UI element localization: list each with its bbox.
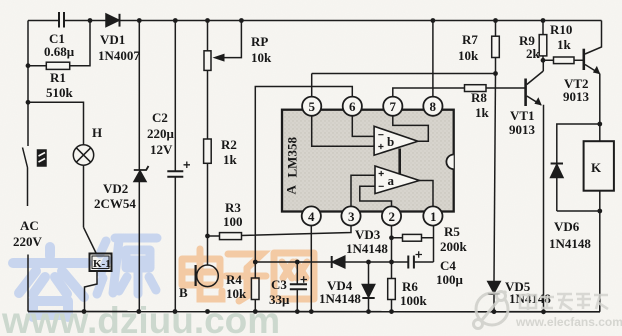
wire left rail bbox=[27, 21, 30, 312]
pin 7 bbox=[383, 97, 402, 116]
svg-text:R8: R8 bbox=[471, 90, 487, 105]
svg-text:K: K bbox=[591, 160, 602, 175]
wire R3 row to pin 3 bbox=[208, 225, 352, 236]
node R9 top bbox=[541, 18, 546, 23]
C2 plus sign bbox=[184, 162, 191, 169]
svg-text:1k: 1k bbox=[475, 105, 490, 120]
wire pin5 to b plus bbox=[312, 74, 374, 147]
svg-text:200k: 200k bbox=[440, 239, 468, 254]
watermark salmon character DIAN bbox=[182, 249, 222, 299]
svg-text:C3: C3 bbox=[271, 277, 287, 292]
wire RP branch bbox=[207, 21, 209, 266]
node pin2 R5 bbox=[389, 235, 394, 240]
wire pin7 to b out bbox=[393, 115, 429, 141]
wire pin7 row to R8 bbox=[393, 88, 526, 97]
node VT2 emitter relay top bbox=[597, 122, 602, 127]
diode VD1 bbox=[106, 14, 120, 27]
svg-text:VD6: VD6 bbox=[554, 219, 580, 234]
svg-text:C2: C2 bbox=[152, 110, 168, 125]
node C3 bottom bbox=[295, 309, 300, 314]
op-amp b bbox=[374, 126, 418, 155]
svg-text:100μ: 100μ bbox=[436, 272, 464, 287]
svg-text:33μ: 33μ bbox=[269, 292, 290, 307]
node relay bottom bbox=[597, 209, 602, 214]
resistor R5 bbox=[403, 234, 422, 241]
svg-text:www.elecfans.com: www.elecfans.com bbox=[515, 315, 622, 329]
node pin8 top bbox=[431, 18, 436, 23]
wire pin2 riser bbox=[391, 225, 393, 312]
svg-text:R3: R3 bbox=[225, 200, 241, 215]
node C2 top bbox=[173, 18, 178, 23]
wire pin6 net left bbox=[255, 87, 352, 263]
node pin4 bottom bbox=[309, 309, 314, 314]
svg-text:10k: 10k bbox=[251, 50, 272, 65]
node R1 left bbox=[26, 63, 31, 68]
wire pin4 riser ground bbox=[310, 225, 312, 312]
node K-1 bottom bbox=[82, 309, 87, 314]
microphone B bbox=[196, 265, 219, 287]
svg-text:2k: 2k bbox=[526, 46, 541, 61]
C3 plus sign bbox=[301, 276, 308, 282]
wire top rail bbox=[28, 20, 602, 22]
svg-text:1: 1 bbox=[430, 209, 437, 224]
wire VD2 branch bbox=[138, 21, 140, 312]
node C2 bottom bbox=[173, 309, 178, 314]
wire pin6 to b minus bbox=[352, 115, 374, 136]
transistor VT2 bbox=[584, 21, 602, 125]
svg-text:VD3: VD3 bbox=[355, 227, 381, 242]
relay K bbox=[584, 124, 614, 312]
svg-text:1N4148: 1N4148 bbox=[509, 291, 551, 306]
watermark blue character YUAN bbox=[97, 238, 157, 294]
svg-text:1N4007: 1N4007 bbox=[98, 48, 140, 63]
svg-text:A: A bbox=[284, 185, 299, 195]
svg-text:8: 8 bbox=[430, 99, 437, 114]
svg-text:VD1: VD1 bbox=[100, 32, 125, 47]
svg-text:C4: C4 bbox=[440, 258, 456, 273]
capacitor C2 bbox=[167, 171, 183, 177]
diode VD4 bbox=[362, 262, 374, 312]
node RP top bbox=[205, 18, 210, 23]
svg-text:2CW54: 2CW54 bbox=[94, 196, 136, 211]
potentiometer RP body bbox=[204, 51, 211, 71]
RP wiper wire with arrow bbox=[213, 21, 242, 62]
watermark gray elecfans logo bbox=[474, 291, 509, 329]
node lamp branch bbox=[26, 100, 31, 105]
svg-text:a: a bbox=[388, 173, 395, 188]
pin 8 bbox=[423, 97, 442, 116]
wire pin1 riser bbox=[433, 225, 435, 262]
node pin2 signal bbox=[389, 260, 394, 265]
wire C2 branch bbox=[174, 21, 176, 312]
resistor R4 bbox=[251, 262, 259, 312]
resistor R2 bbox=[204, 139, 212, 163]
wire pin2 to a minus bbox=[360, 186, 392, 207]
svg-text:www.dziuu.com: www.dziuu.com bbox=[1, 300, 280, 336]
wire VD6 bottom row bbox=[557, 210, 600, 212]
wire signal row bbox=[255, 261, 433, 263]
svg-text:0.68μ: 0.68μ bbox=[44, 44, 75, 59]
svg-text:1k: 1k bbox=[557, 37, 572, 52]
node R7 top bbox=[493, 18, 498, 23]
wire R1 row bbox=[28, 21, 90, 66]
svg-text:R1: R1 bbox=[50, 70, 66, 85]
relay contact blade bbox=[84, 227, 97, 254]
wire pin3 to a plus bbox=[351, 175, 375, 207]
node R4 bottom bbox=[253, 309, 258, 314]
svg-text:VT1: VT1 bbox=[510, 108, 535, 123]
IC body LM358 bbox=[282, 110, 454, 212]
watermark gray characters dianzifashaoyou bbox=[520, 293, 608, 310]
svg-text:7: 7 bbox=[390, 99, 397, 114]
svg-text:2: 2 bbox=[389, 209, 396, 224]
node VD4 bottom bbox=[366, 309, 371, 314]
node C1 R1 top bbox=[88, 18, 93, 23]
svg-text:100: 100 bbox=[223, 214, 243, 229]
wire link b to a bbox=[398, 149, 401, 175]
svg-text:9013: 9013 bbox=[563, 89, 590, 104]
svg-text:510k: 510k bbox=[46, 85, 74, 100]
wire pin5 row to R7 bbox=[312, 73, 496, 75]
wire K-1 to bottom rail bbox=[85, 272, 98, 312]
node VD2 bottom bbox=[136, 309, 141, 314]
svg-text:b: b bbox=[387, 134, 394, 149]
wire R7 to VD5 bbox=[494, 74, 496, 282]
watermark blue character RONG bbox=[13, 247, 87, 317]
svg-text:B: B bbox=[179, 285, 188, 300]
svg-text:6: 6 bbox=[349, 99, 356, 114]
C4 plus sign bbox=[416, 251, 423, 257]
wire lamp branch bbox=[28, 102, 84, 145]
svg-text:100k: 100k bbox=[400, 293, 428, 308]
resistor R7 bbox=[492, 21, 500, 74]
node R9 bottom bbox=[541, 58, 546, 63]
node VD2 top bbox=[137, 18, 142, 23]
wire bottom rail bbox=[28, 311, 600, 313]
svg-text:H: H bbox=[92, 125, 102, 140]
wire VD6 top row bbox=[557, 124, 600, 163]
resistor R9 bbox=[539, 21, 547, 61]
node C3 top bbox=[295, 260, 300, 265]
node signal junction bbox=[253, 260, 258, 265]
node pin5 R7 bbox=[493, 71, 498, 76]
wire R10 row bbox=[543, 59, 584, 61]
svg-text:K-1: K-1 bbox=[93, 258, 111, 270]
resistor R1 bbox=[46, 62, 69, 69]
svg-text:10k: 10k bbox=[226, 286, 247, 301]
pin 2 bbox=[382, 206, 401, 225]
capacitor C1 bbox=[59, 12, 64, 28]
pin 5 bbox=[302, 97, 321, 116]
svg-text:4: 4 bbox=[308, 209, 315, 224]
svg-text:R7: R7 bbox=[462, 32, 478, 47]
svg-text:LM358: LM358 bbox=[285, 137, 300, 178]
pin 4 bbox=[302, 206, 321, 225]
resistor R8 bbox=[465, 85, 487, 92]
svg-text:VD2: VD2 bbox=[103, 181, 128, 196]
node VD4 top bbox=[366, 260, 371, 265]
relay contact K-1 box bbox=[90, 254, 112, 272]
svg-text:R4: R4 bbox=[226, 272, 242, 287]
svg-text:R2: R2 bbox=[221, 137, 237, 152]
svg-text:1N4148: 1N4148 bbox=[346, 241, 388, 256]
node VT1 emitter bottom bbox=[541, 309, 546, 314]
svg-text:10k: 10k bbox=[458, 48, 479, 63]
wire a out to pin1 bbox=[419, 181, 433, 208]
svg-text:3: 3 bbox=[348, 209, 355, 224]
pin 3 bbox=[341, 206, 360, 225]
node VD5 bottom bbox=[492, 309, 497, 314]
watermark salmon character ZI bbox=[226, 254, 266, 301]
AC plug body bbox=[38, 150, 47, 166]
diode VD3 bbox=[332, 256, 345, 268]
AC plug blade bbox=[23, 148, 28, 168]
svg-text:RP: RP bbox=[251, 34, 268, 49]
svg-text:1N4148: 1N4148 bbox=[549, 236, 591, 251]
svg-text:R6: R6 bbox=[402, 279, 418, 294]
svg-text:R10: R10 bbox=[550, 22, 572, 37]
pin 1 bbox=[423, 206, 442, 225]
resistor R6 bbox=[388, 279, 396, 300]
wire pin8 riser bbox=[432, 21, 434, 98]
resistor R3 bbox=[220, 233, 242, 240]
wire R5 row bbox=[392, 237, 434, 239]
node RP wiper top bbox=[239, 18, 244, 23]
pin 6 bbox=[343, 97, 362, 116]
lamp H bbox=[73, 145, 93, 165]
transistor VT1 bbox=[526, 60, 544, 311]
svg-text:R5: R5 bbox=[444, 224, 460, 239]
svg-text:1N4148: 1N4148 bbox=[319, 291, 361, 306]
capacitor C3 bbox=[290, 262, 307, 312]
node B bottom bbox=[205, 309, 210, 314]
svg-text:AC: AC bbox=[20, 218, 39, 233]
diode VD5 bbox=[488, 282, 500, 312]
svg-text:9013: 9013 bbox=[509, 122, 536, 137]
watermark salmon character WANG bbox=[274, 253, 314, 299]
svg-text:220μ: 220μ bbox=[147, 126, 175, 141]
svg-text:12V: 12V bbox=[150, 142, 173, 157]
op-amp a bbox=[375, 166, 419, 194]
node R6 bottom bbox=[389, 309, 394, 314]
svg-text:1k: 1k bbox=[223, 152, 238, 167]
capacitor C4 bbox=[408, 256, 414, 269]
diode VD6 bbox=[551, 164, 563, 212]
resistor R10 bbox=[554, 57, 575, 64]
svg-text:220V: 220V bbox=[13, 234, 43, 249]
zener VD2 bbox=[134, 166, 149, 182]
node R3 left bbox=[205, 234, 210, 239]
wire lamp to contact bbox=[83, 165, 85, 227]
svg-text:5: 5 bbox=[309, 99, 316, 114]
